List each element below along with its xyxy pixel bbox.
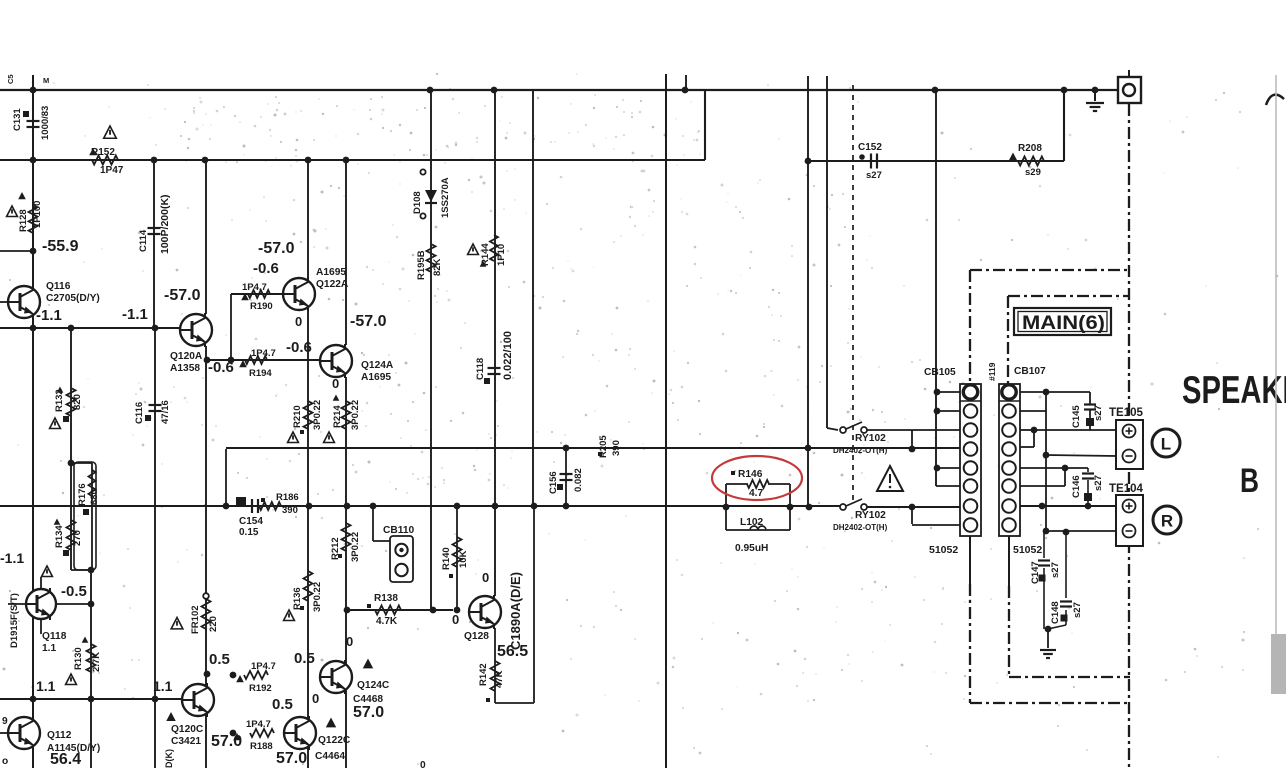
svg-text:Q122C: Q122C <box>318 735 351 746</box>
svg-text:R195B: R195B <box>416 250 427 280</box>
svg-text:0.95uH: 0.95uH <box>735 543 768 554</box>
svg-text:R130: R130 <box>73 647 84 670</box>
svg-text:0: 0 <box>332 376 339 391</box>
svg-text:C154: C154 <box>239 516 263 527</box>
svg-text:0.5: 0.5 <box>272 696 293 713</box>
svg-text:R152: R152 <box>91 147 115 158</box>
svg-text:-1.1: -1.1 <box>0 550 24 566</box>
svg-text:0: 0 <box>482 570 489 585</box>
svg-text:1P10: 1P10 <box>496 244 507 266</box>
svg-text:-1.1: -1.1 <box>36 307 62 324</box>
svg-text:L: L <box>1161 435 1171 454</box>
svg-text:0: 0 <box>420 760 426 768</box>
svg-text:1P4.7: 1P4.7 <box>242 282 267 293</box>
svg-text:47K: 47K <box>494 670 505 688</box>
svg-text:C4464: C4464 <box>315 751 345 762</box>
svg-text:R208: R208 <box>1018 143 1042 154</box>
svg-text:56.4: 56.4 <box>50 751 81 768</box>
svg-text:L102: L102 <box>740 517 764 528</box>
svg-text:3P0.22: 3P0.22 <box>350 532 361 562</box>
svg-text:0.15: 0.15 <box>239 527 259 538</box>
svg-text:-57.0: -57.0 <box>258 240 295 257</box>
svg-text:57.0: 57.0 <box>211 733 242 750</box>
svg-text:R176: R176 <box>77 483 88 506</box>
svg-text:R186: R186 <box>276 492 299 503</box>
svg-text:1P100: 1P100 <box>32 201 43 228</box>
svg-text:s27: s27 <box>1050 562 1061 578</box>
svg-text:1.1: 1.1 <box>36 678 56 694</box>
svg-text:A1358: A1358 <box>170 363 200 374</box>
svg-text:57.0: 57.0 <box>276 750 307 767</box>
svg-text:s29: s29 <box>1025 167 1041 178</box>
svg-text:C146: C146 <box>1071 475 1082 498</box>
svg-text:R134: R134 <box>54 525 65 548</box>
svg-text:10K: 10K <box>458 550 469 568</box>
svg-text:C131: C131 <box>12 108 23 131</box>
svg-text:-0.6: -0.6 <box>253 260 279 277</box>
svg-text:R138: R138 <box>374 593 398 604</box>
svg-text:TE104: TE104 <box>1109 483 1143 495</box>
svg-text:3P0.22: 3P0.22 <box>312 582 323 612</box>
svg-text:DH2402-OT(H): DH2402-OT(H) <box>833 523 888 532</box>
svg-text:R188: R188 <box>250 741 273 752</box>
svg-text:C156: C156 <box>548 471 559 494</box>
svg-text:C152: C152 <box>858 142 882 153</box>
svg-text:57.0: 57.0 <box>353 704 384 721</box>
svg-text:-0.5: -0.5 <box>61 583 87 600</box>
svg-text:1P4.7: 1P4.7 <box>251 348 276 359</box>
svg-text:A1695: A1695 <box>316 267 346 278</box>
svg-text:4.7: 4.7 <box>749 488 763 499</box>
svg-text:Q118: Q118 <box>42 631 67 642</box>
svg-text:0: 0 <box>346 634 353 649</box>
svg-text:CB107: CB107 <box>1014 366 1046 377</box>
svg-text:220: 220 <box>208 616 219 632</box>
svg-text:R190: R190 <box>250 301 273 312</box>
svg-text:51052: 51052 <box>929 544 958 556</box>
svg-text:Q122A: Q122A <box>316 279 349 290</box>
svg-text:390: 390 <box>611 440 622 456</box>
svg-text:0: 0 <box>295 314 302 329</box>
svg-text:-1.1: -1.1 <box>122 306 148 323</box>
svg-text:-55.9: -55.9 <box>42 238 79 255</box>
svg-text:Q128: Q128 <box>464 631 489 642</box>
svg-text:s27: s27 <box>866 170 882 181</box>
svg-text:s27: s27 <box>1093 405 1104 421</box>
svg-text:0.5: 0.5 <box>294 650 315 667</box>
svg-text:R192: R192 <box>249 683 272 694</box>
svg-text:D108: D108 <box>412 191 423 214</box>
svg-text:C1890A(D/E): C1890A(D/E) <box>508 572 523 650</box>
svg-text:680: 680 <box>89 489 100 505</box>
svg-text:820: 820 <box>72 394 83 410</box>
svg-text:C145: C145 <box>1071 405 1082 428</box>
svg-text:1SS270A: 1SS270A <box>440 177 451 218</box>
svg-text:1000/83: 1000/83 <box>40 106 51 140</box>
svg-text:FR102: FR102 <box>190 605 201 634</box>
svg-text:4.7K: 4.7K <box>376 616 398 627</box>
svg-text:R214: R214 <box>332 405 343 428</box>
svg-text:Q124A: Q124A <box>361 360 394 371</box>
svg-text:1.1: 1.1 <box>42 643 56 654</box>
svg-text:51052: 51052 <box>1013 544 1042 556</box>
svg-text:s27: s27 <box>1072 602 1083 618</box>
svg-text:100P/200(K): 100P/200(K) <box>159 194 171 254</box>
svg-text:RY102: RY102 <box>855 433 886 444</box>
svg-text:MAIN(6): MAIN(6) <box>1022 313 1105 334</box>
svg-text:1P4.7: 1P4.7 <box>246 719 271 730</box>
svg-text:Q116: Q116 <box>46 281 71 292</box>
svg-text:9: 9 <box>2 716 8 727</box>
svg-text:C114: C114 <box>138 229 149 252</box>
svg-text:1P4.7: 1P4.7 <box>251 661 276 672</box>
svg-text:2.7K: 2.7K <box>91 652 102 672</box>
svg-text:R128: R128 <box>18 209 29 232</box>
svg-text:-57.0: -57.0 <box>350 313 387 330</box>
svg-text:Q112: Q112 <box>47 730 72 741</box>
svg-text:0.022/100: 0.022/100 <box>502 331 514 380</box>
svg-text:C116: C116 <box>134 402 145 424</box>
svg-text:R194: R194 <box>249 368 272 379</box>
svg-text:C2705(D/Y): C2705(D/Y) <box>46 293 100 304</box>
svg-text:B: B <box>1240 462 1259 500</box>
svg-text:47/16: 47/16 <box>160 400 171 424</box>
svg-text:C3421: C3421 <box>171 736 201 747</box>
svg-text:0: 0 <box>312 691 319 706</box>
svg-text:-57.0: -57.0 <box>164 287 201 304</box>
svg-text:Q120C: Q120C <box>171 724 204 735</box>
svg-text:82K: 82K <box>432 258 443 276</box>
svg-text:#119: #119 <box>987 362 997 381</box>
svg-text:A1695: A1695 <box>361 372 391 383</box>
svg-text:390: 390 <box>282 505 298 516</box>
svg-text:-0.6: -0.6 <box>208 359 234 376</box>
svg-text:1.1: 1.1 <box>153 678 173 694</box>
svg-text:CB110: CB110 <box>383 525 414 536</box>
svg-text:R144: R144 <box>480 243 491 266</box>
svg-text:3P0.22: 3P0.22 <box>312 400 323 430</box>
svg-text:D1915F(S/T): D1915F(S/T) <box>9 593 20 648</box>
svg-text:RY102: RY102 <box>855 510 886 521</box>
svg-text:R146: R146 <box>738 469 763 480</box>
svg-text:Q124C: Q124C <box>357 680 390 691</box>
svg-text:DH2402-OT(H): DH2402-OT(H) <box>833 446 888 455</box>
svg-text:D(K): D(K) <box>164 749 174 768</box>
svg-text:R140: R140 <box>441 547 452 570</box>
svg-text:0.5: 0.5 <box>209 651 230 668</box>
svg-text:Q120A: Q120A <box>170 351 203 362</box>
svg-text:1P47: 1P47 <box>100 165 124 176</box>
svg-text:R: R <box>1161 512 1173 531</box>
svg-text:CB105: CB105 <box>924 367 956 378</box>
svg-text:R142: R142 <box>478 663 489 686</box>
svg-text:M: M <box>43 76 49 85</box>
svg-text:270: 270 <box>72 530 83 546</box>
svg-text:SPEAKE: SPEAKE <box>1182 369 1286 412</box>
svg-text:3P0.22: 3P0.22 <box>350 400 361 430</box>
svg-text:0: 0 <box>452 612 459 627</box>
svg-text:C118: C118 <box>475 358 486 380</box>
svg-text:TE105: TE105 <box>1109 407 1143 419</box>
svg-text:C5: C5 <box>6 74 15 84</box>
svg-text:0.082: 0.082 <box>573 468 584 492</box>
svg-text:o: o <box>2 756 8 767</box>
svg-text:R210: R210 <box>292 405 303 428</box>
svg-text:-0.6: -0.6 <box>286 339 312 356</box>
svg-text:s27: s27 <box>1093 475 1104 491</box>
svg-text:C148: C148 <box>1050 601 1061 624</box>
svg-text:C147: C147 <box>1030 561 1041 584</box>
